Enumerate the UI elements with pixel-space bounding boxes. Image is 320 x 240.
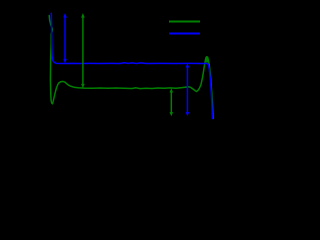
green double arrow right (x=171.3, green line to y=116)	[170, 88, 174, 116]
chart canvas	[0, 0, 232, 162]
legend blue line	[169, 33, 200, 35]
blue double arrow left (x=65.3, top to blue line)	[63, 13, 67, 63]
green curve (series 1)	[49, 16, 213, 119]
green double arrow left (x=82.9, top to green line)	[81, 13, 85, 88]
green peak fill (noisy spike body)	[205, 56, 208, 62]
legend green line	[169, 21, 200, 23]
blue double arrow right (x=187.0, blue line to y=116)	[186, 63, 190, 116]
blue curve (series 2)	[51, 13, 212, 118]
